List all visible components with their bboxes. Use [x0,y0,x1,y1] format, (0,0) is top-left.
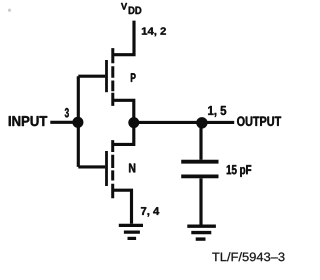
wire NMOS source to ground [112,190,132,224]
ground capacitor [187,226,216,239]
wire PMOS drain to output node [113,100,134,122]
pin label 1, 5 [208,106,226,117]
node output terminal [196,117,207,128]
label INPUT [9,116,47,126]
label 15 pF [227,165,252,177]
label N [129,164,135,173]
pin label 7, 4 [141,207,159,216]
pin label 14, 2 [142,27,166,36]
pin label 3 [65,108,69,117]
wire capacitor to ground [199,178,202,224]
wire N gate lead [78,165,105,168]
node input junction [72,117,83,128]
label P [131,73,136,82]
wire output [134,121,234,124]
node output junction [128,117,139,128]
ground NMOS source [119,225,143,238]
label VDD [121,3,141,14]
capacitor C1 15 pF [181,162,218,177]
label TL/F/5943-3 [212,252,284,261]
label OUTPUT [237,116,281,126]
wire NMOS drain to output node [113,122,134,144]
wire input lead [50,121,74,124]
wire input node to gates [77,76,80,167]
wire VDD to PMOS source [113,21,134,55]
transistor N (NMOS) [107,140,113,198]
transistor P (PMOS) [78,48,113,106]
wire output node to capacitor [199,122,202,160]
